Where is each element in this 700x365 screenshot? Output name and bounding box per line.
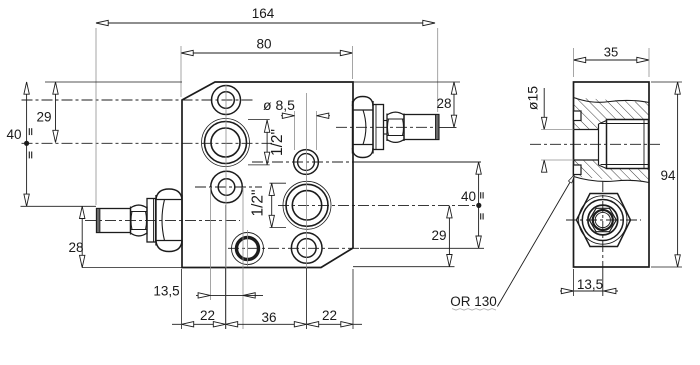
dim 164 [96, 6, 435, 26]
side view hatch upper [574, 98, 650, 130]
side view break line lower [574, 177, 650, 183]
centerline row H6 y205 [278, 204, 478, 206]
vertical ext x210.5 (13.5 dim) [210, 187, 212, 300]
leader OR130 [497, 174, 576, 307]
centerline right fitting y127 [336, 126, 457, 128]
hex plug hexagon [577, 194, 631, 247]
dim 35 [574, 45, 650, 78]
dim half-inch H6 [250, 183, 287, 227]
front view block outline [182, 82, 353, 268]
hole H5 o8.5 [294, 150, 319, 175]
vertical ext o8.5 left tangent [294, 111, 296, 150]
svg-text:29: 29 [36, 110, 51, 125]
dim 94 [651, 82, 682, 267]
hole H6 port 1/2in right [283, 181, 331, 229]
right fitting small hex [387, 112, 404, 142]
hex plug circles [579, 196, 627, 244]
side view axis centerline [530, 143, 660, 145]
svg-text:28: 28 [436, 96, 451, 111]
dim 40 right [461, 162, 483, 248]
side view bore o15 [574, 124, 599, 165]
o-ring groove lower [574, 165, 582, 175]
svg-text:13,5: 13,5 [153, 284, 179, 299]
ext line stem top left [21, 205, 97, 207]
svg-text:36: 36 [261, 310, 276, 325]
dim o15 [525, 86, 574, 172]
centerline left fitting y220 [85, 219, 240, 221]
right fitting neck [384, 121, 388, 135]
ext line top edge left [45, 81, 182, 83]
right fitting big hex [353, 97, 374, 158]
svg-text:22: 22 [200, 308, 215, 323]
dim 13.5 side [560, 269, 618, 296]
svg-text:22: 22 [322, 308, 337, 323]
side view outline [574, 82, 650, 267]
dim 80 [181, 37, 353, 98]
side view hatch lower [574, 160, 650, 183]
hex plug centerline vertical [602, 181, 604, 296]
dim 29 left [36, 82, 58, 143]
left fitting washer flange [147, 199, 156, 243]
hole H1 top-left (mounting) [212, 86, 241, 115]
o-ring groove upper [574, 111, 582, 121]
dim half-inch H2 [248, 120, 286, 165]
left fitting stem [97, 209, 131, 233]
hole H2 port 1/2in left [202, 119, 250, 167]
svg-text:13,5: 13,5 [577, 277, 603, 292]
centerline row H2 y143 [22, 142, 273, 144]
vertical ext x437.7 (164 dim right) [437, 28, 439, 112]
svg-text:29: 29 [431, 228, 446, 243]
dim o8.5 [263, 97, 330, 118]
vertical ext x243 (13.5 dim) [242, 187, 244, 329]
node dot left 40 [24, 141, 29, 146]
svg-text:40: 40 [6, 127, 21, 142]
svg-text:ø15: ø15 [525, 86, 541, 110]
vertical ext x96 (164 dim left) [95, 28, 97, 205]
hole H7 bottom-right [291, 233, 322, 264]
label OR 130 [450, 294, 497, 310]
svg-text:28: 28 [68, 240, 83, 255]
side view thread chamfer [599, 121, 607, 169]
vertical centerline column x306.5 [306, 93, 308, 329]
hole H4 bottom-left threaded [232, 233, 264, 265]
svg-text:1/2": 1/2" [269, 129, 286, 156]
dim 28 right [436, 82, 456, 127]
dim 22-36-22 bottom [172, 205, 362, 329]
svg-text:164: 164 [252, 6, 275, 21]
svg-text:OR 130: OR 130 [450, 294, 497, 309]
svg-text:80: 80 [256, 37, 271, 52]
node dot right 40 [476, 203, 481, 208]
centerline row H5 y162 [252, 161, 481, 163]
left fitting small hex [131, 205, 148, 236]
dim 40 left [6, 82, 31, 206]
ext line top edge right [353, 81, 460, 83]
svg-text:94: 94 [660, 168, 676, 183]
vertical centerline H4 x247.5 [247, 230, 249, 267]
right fitting washer flange [373, 105, 384, 150]
vertical ext o8.5 right tangent [316, 111, 318, 150]
dim 13.5 front [153, 284, 263, 299]
svg-text:ø 8,5: ø 8,5 [263, 97, 295, 113]
svg-text:1/2": 1/2" [250, 189, 267, 216]
hole H3 mid-left (mounting) [211, 171, 243, 203]
side view break line upper [574, 98, 650, 103]
svg-text:40: 40 [461, 189, 476, 204]
dim 29 right [431, 206, 452, 267]
centerline row H3 y187 [195, 186, 262, 188]
side view thread plug [601, 120, 649, 169]
hex plug centerline horizontal [566, 219, 641, 221]
centerline row H4-H7 y248 [228, 247, 484, 249]
left fitting big hex [156, 189, 182, 252]
ext line bottom edge left [82, 267, 182, 269]
vertical centerline column x226 [225, 85, 227, 329]
svg-text:35: 35 [604, 45, 618, 60]
ext line bottom edge right [353, 266, 455, 268]
dim 28 left [68, 206, 84, 267]
right fitting stem [404, 115, 439, 140]
centerline row H1 y100 [22, 99, 256, 101]
